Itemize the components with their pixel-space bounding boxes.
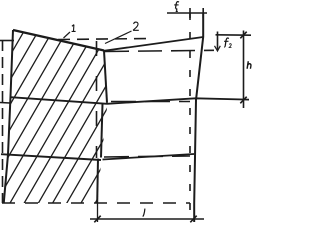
wall top edge bbox=[13, 30, 104, 51]
dashed bottom line bbox=[2, 202, 190, 204]
label h bbox=[247, 61, 251, 69]
dimension f2 vertical with arrow bbox=[217, 32, 219, 51]
f1 tick left bbox=[189, 8, 191, 18]
h bottom slash tick bbox=[240, 97, 246, 104]
l left slash tick bbox=[94, 216, 100, 223]
wall lower slab line bbox=[1, 154, 101, 160]
dashed original outline: left edge bbox=[2, 40, 4, 203]
deformed middle slab right bay + extension bbox=[107, 98, 249, 104]
dashed original middle slab (right bay) bbox=[111, 101, 190, 103]
label 2 with leader bbox=[133, 22, 138, 30]
wall right edge bbox=[104, 51, 107, 103]
dimension h line bbox=[243, 31, 245, 109]
dashed original roof line of right bay bbox=[105, 50, 214, 51]
label l bbox=[143, 209, 145, 217]
dashed original outline: top line bbox=[58, 39, 149, 40]
hatching of tilted wall bbox=[0, 20, 229, 210]
deformed lower slab right bay bbox=[103, 154, 195, 160]
h top slash tick bbox=[240, 32, 246, 39]
wall middle slab line bbox=[11, 97, 108, 104]
label f1 bbox=[174, 2, 179, 12]
dashed original right edge of right bay bbox=[189, 13, 191, 211]
f2 reference line bbox=[216, 34, 252, 36]
wall left edge bbox=[4, 30, 13, 203]
dashed original middle slab (left of wall) bbox=[0, 102, 10, 105]
deformed right wall edge with top extension bbox=[194, 13, 203, 222]
label 1 with leader bbox=[72, 25, 76, 32]
l right slash tick bbox=[190, 216, 196, 223]
dashed original outline: top-left bit bbox=[0, 40, 14, 42]
dimension f1 line bbox=[167, 12, 207, 14]
left extension line for l bbox=[97, 203, 99, 222]
dimension l line bbox=[90, 218, 204, 220]
deformed roof slab line right bay bbox=[104, 37, 203, 51]
label f2 bbox=[224, 38, 231, 47]
dashed original outline: middle vertical (left bay right edge) bbox=[96, 41, 98, 158]
dashed original lower slab (right bay) bbox=[104, 156, 190, 157]
f1 tick right bbox=[202, 8, 204, 18]
